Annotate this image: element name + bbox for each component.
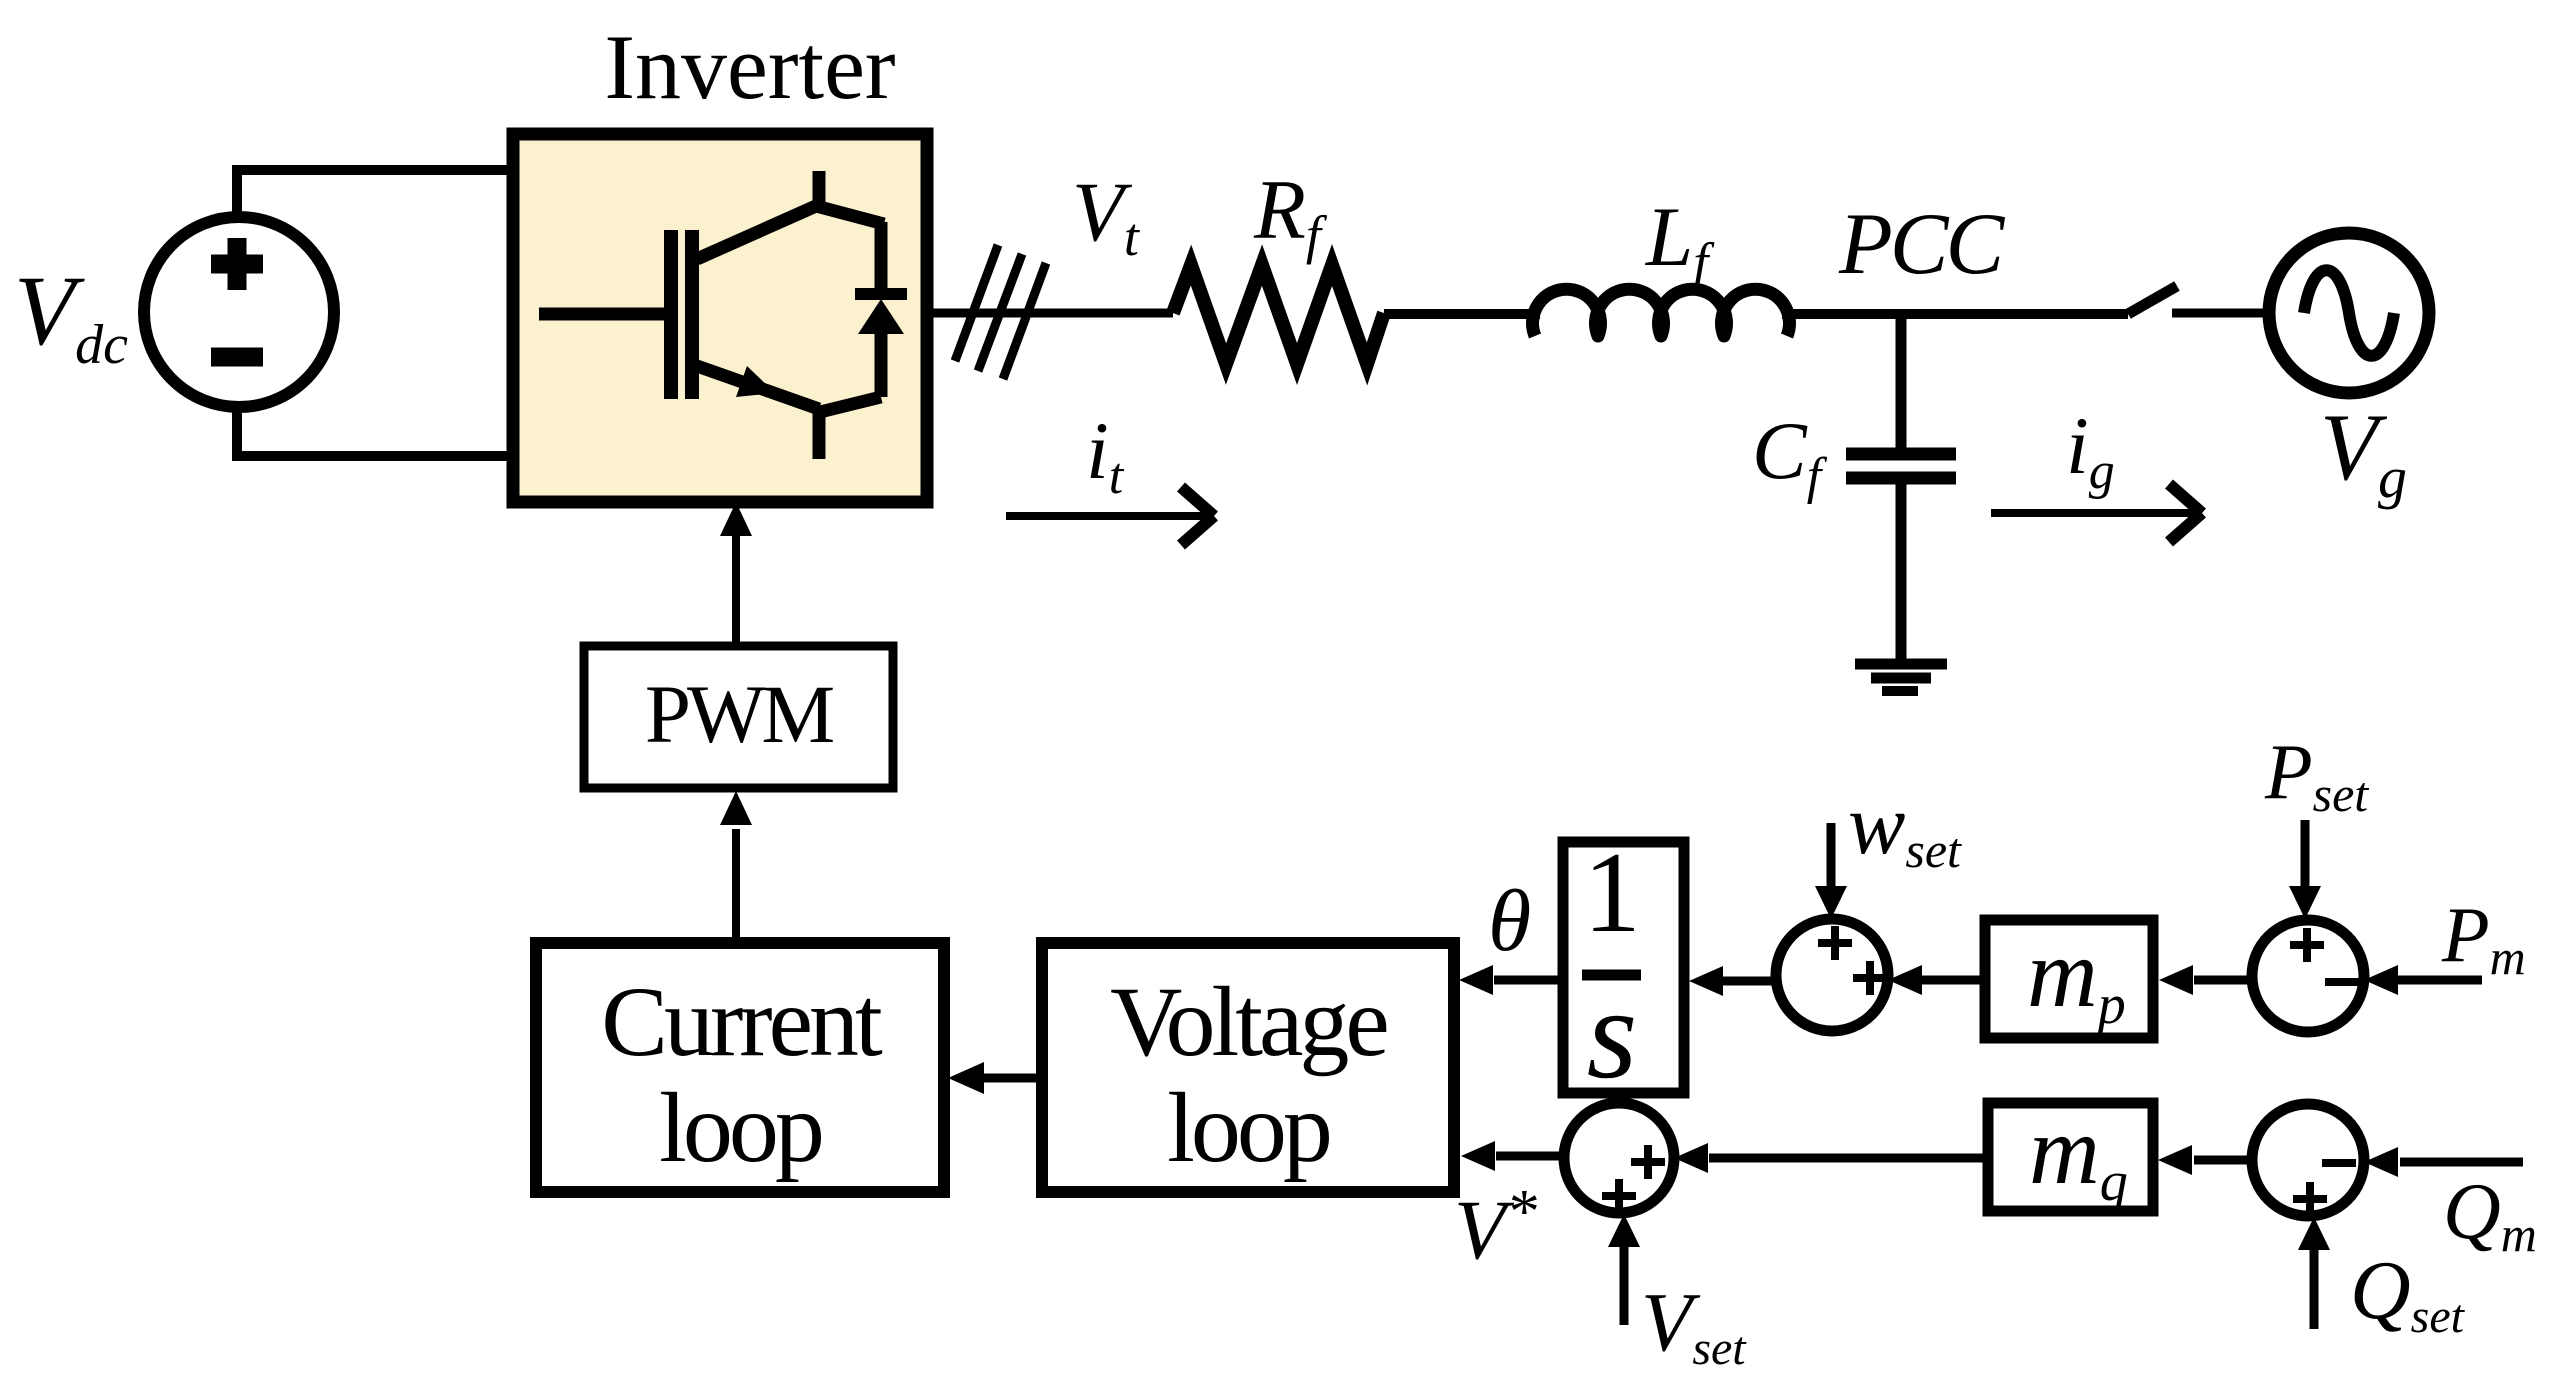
svg-text:Voltage: Voltage <box>1110 966 1386 1077</box>
svg-text:PCC: PCC <box>1838 196 2005 293</box>
svg-text:PWM: PWM <box>645 668 834 760</box>
svg-text:1: 1 <box>1583 829 1641 956</box>
svg-text:loop: loop <box>659 1072 822 1183</box>
svg-text:loop: loop <box>1167 1072 1330 1183</box>
svg-text:θ: θ <box>1488 873 1531 970</box>
svg-text:s: s <box>1587 962 1638 1106</box>
svg-text:Current: Current <box>601 966 883 1077</box>
svg-text:Inverter: Inverter <box>604 16 895 118</box>
